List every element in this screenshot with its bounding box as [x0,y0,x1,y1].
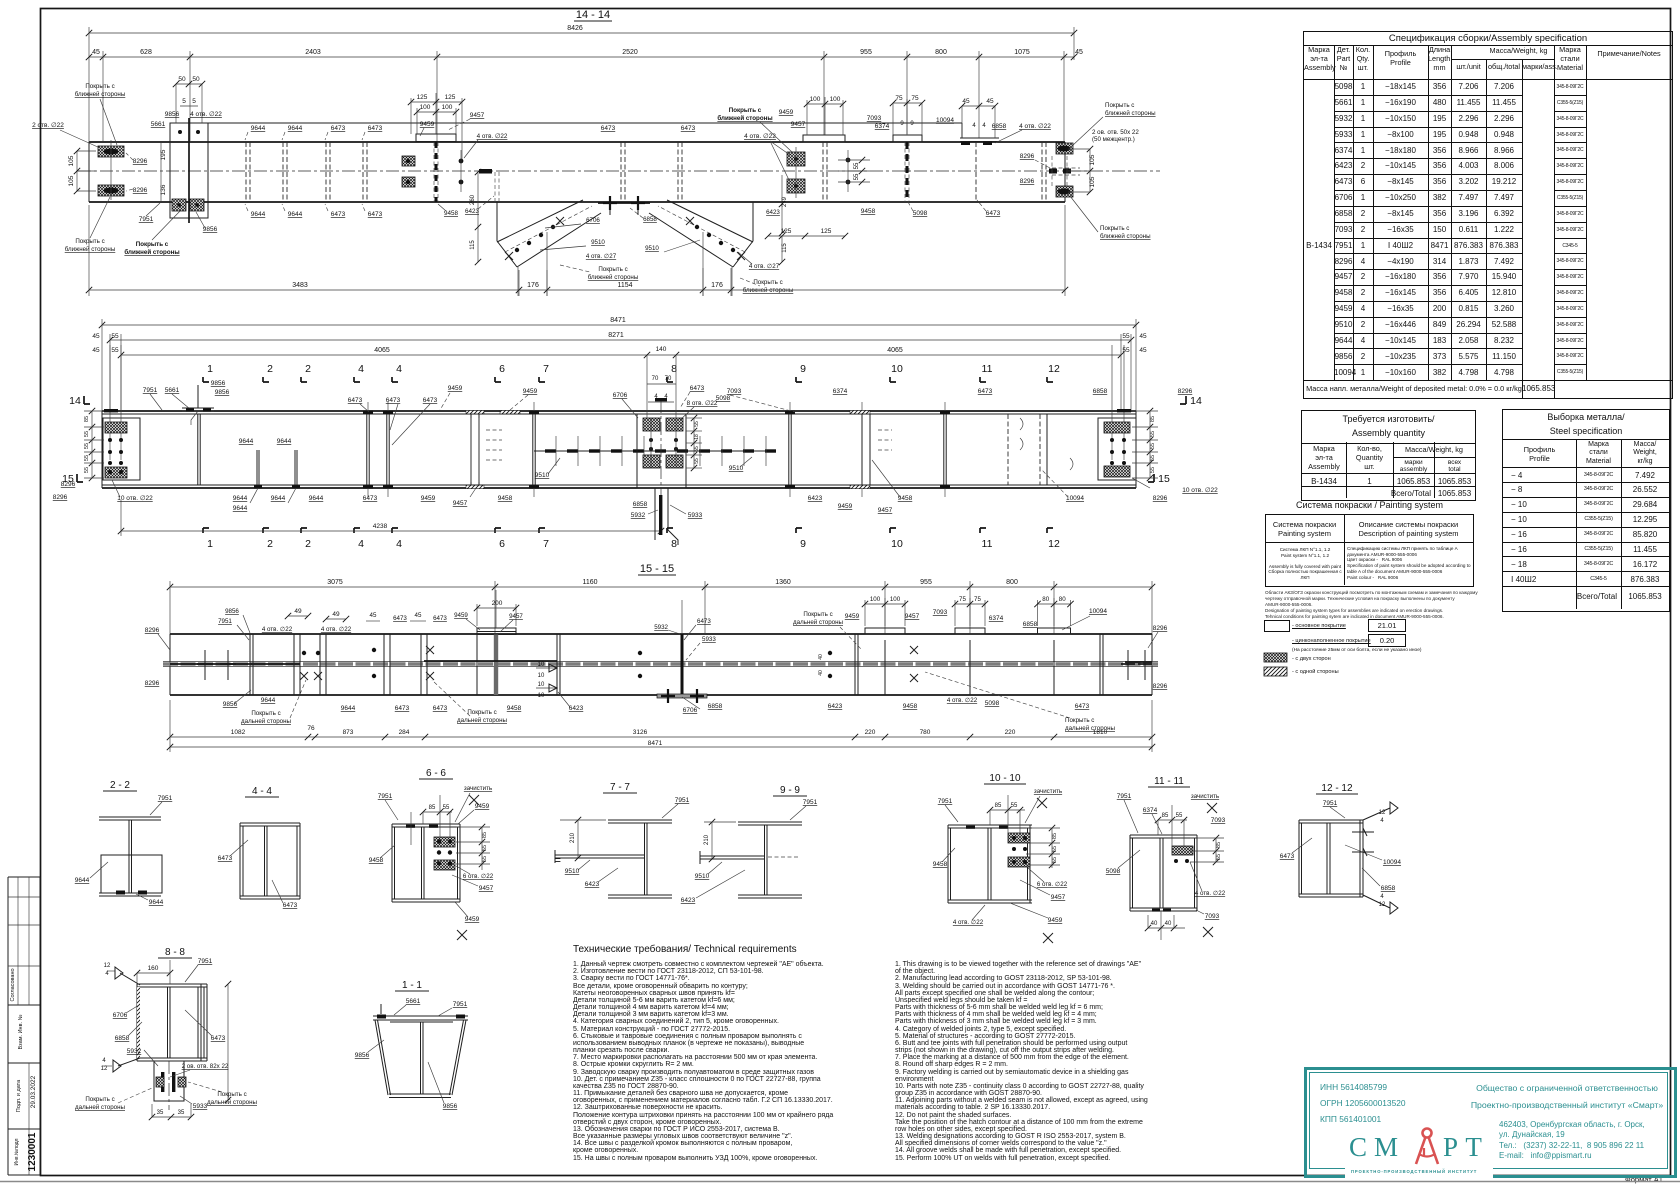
svg-text:9: 9 [900,121,904,127]
svg-text:9457: 9457 [509,613,523,620]
beam 15-15 outline [170,634,1152,695]
svg-text:6423: 6423 [681,897,696,904]
svg-text:9644: 9644 [288,211,303,218]
svg-text:140: 140 [656,346,667,353]
svg-text:6473: 6473 [331,211,346,218]
elevation stiffeners [198,402,950,497]
right end bolt group elevation [1098,345,1136,480]
svg-text:55: 55 [1150,467,1156,473]
left vertical dim chain 85/55x4 [84,408,104,481]
svg-text:4 отв. ∅22: 4 отв. ∅22 [321,626,352,633]
svg-text:6473: 6473 [331,125,346,132]
view marks 14/15 left [62,395,90,485]
section 2-2 [75,780,173,906]
svg-text:49: 49 [332,611,340,618]
svg-text:125: 125 [445,94,456,101]
svg-text:6858: 6858 [1093,388,1108,395]
svg-text:6858: 6858 [708,703,723,710]
svg-text:9459: 9459 [420,121,435,128]
svg-text:55: 55 [84,467,90,473]
svg-text:Покрыть с: Покрыть с [803,611,832,618]
svg-text:125: 125 [417,94,428,101]
label pokryt under plate [124,210,181,256]
svg-text:8471: 8471 [648,740,663,747]
company requisites [1320,1079,1406,1127]
svg-text:45: 45 [92,333,100,340]
svg-text:18: 18 [694,434,700,440]
svg-text:6: 6 [499,538,505,550]
svg-text:55: 55 [1011,803,1018,809]
svg-text:115: 115 [782,243,788,253]
svg-text:75: 75 [974,596,981,603]
mid splice bolt group [637,400,686,500]
svg-text:ближней стороны: ближней стороны [588,274,639,281]
svg-text:1154: 1154 [617,282,632,289]
svg-text:70: 70 [652,376,659,382]
dim row 4065 140 4065 [92,333,1147,411]
plate 200 on top [454,590,523,695]
svg-text:6473: 6473 [1075,703,1090,710]
beam 14-14 centerline [78,170,1160,172]
svg-text:5: 5 [182,98,186,105]
svg-text:6473: 6473 [681,125,696,132]
stiffener labels 6473 x3 [348,397,438,445]
svg-text:Покрыть с: Покрыть с [729,107,762,114]
svg-text:6858: 6858 [992,123,1007,130]
svg-text:8296: 8296 [61,481,76,488]
svg-text:100: 100 [830,96,841,103]
svg-text:зачистить: зачистить [464,785,492,792]
dims 49/49 with bolts [262,608,376,680]
svg-text:7093: 7093 [1205,913,1220,920]
svg-text:(50 межцентр.): (50 межцентр.) [1092,136,1135,143]
svg-text:дальней стороны: дальней стороны [1065,725,1116,732]
view title 14-14 [574,9,612,21]
svg-text:8296: 8296 [133,158,148,165]
dim 4238 bottom middle [118,500,664,536]
15-15 below labels left [223,680,584,725]
svg-text:9459: 9459 [838,503,853,510]
svg-text:6473: 6473 [211,1035,226,1042]
svg-text:7 - 7: 7 - 7 [610,782,630,793]
svg-text:55: 55 [854,162,860,169]
svg-text:9644: 9644 [239,438,254,445]
svg-text:10094: 10094 [1089,608,1107,615]
beam 14-14 flange edge line [208,123,962,138]
svg-text:5932: 5932 [654,624,668,631]
svg-text:55: 55 [1122,347,1130,354]
svg-text:Покрыть с: Покрыть с [598,266,627,273]
svg-text:85: 85 [1150,416,1156,422]
svg-text:45: 45 [1139,333,1147,340]
svg-text:4065: 4065 [374,347,390,354]
svg-text:9458: 9458 [861,208,876,215]
svg-text:9644: 9644 [288,125,303,132]
svg-text:10 - 10: 10 - 10 [989,773,1021,784]
svg-text:5098: 5098 [716,395,731,402]
svg-text:5: 5 [192,98,196,105]
svg-text:55: 55 [1052,846,1058,852]
right labels 8296 10otv [1132,478,1218,502]
svg-text:6374: 6374 [833,388,848,395]
svg-text:9458: 9458 [933,861,948,868]
svg-text:6423: 6423 [569,705,584,712]
plate assembly 5661/9856 at x190 [170,118,208,223]
svg-text:105: 105 [68,175,75,186]
view title 15-15 [638,563,676,575]
svg-text:100: 100 [870,596,881,603]
sheet bottom edge [0,1181,1680,1183]
svg-text:15 - 15: 15 - 15 [640,563,674,575]
technical requirements english column [895,961,1305,1162]
bracket B labels [645,240,794,294]
svg-text:5098: 5098 [913,210,928,217]
svg-text:9644: 9644 [277,438,292,445]
svg-text:ближней стороны: ближней стороны [75,91,126,98]
svg-text:35: 35 [157,1110,164,1116]
svg-text:40: 40 [818,654,824,660]
svg-text:4: 4 [105,971,109,977]
svg-text:9644: 9644 [251,211,266,218]
svg-text:55: 55 [84,455,90,461]
svg-text:5661: 5661 [165,387,180,394]
svg-text:9856: 9856 [203,226,218,233]
svg-text:6473: 6473 [393,615,407,622]
right end dims 105/105 [1068,146,1096,195]
svg-text:628: 628 [140,49,152,56]
svg-text:14: 14 [1190,395,1202,407]
top plate at x182-214 [182,385,214,425]
svg-text:8426: 8426 [567,25,583,32]
svg-text:9458: 9458 [444,210,459,217]
svg-text:7093: 7093 [867,115,882,122]
svg-text:10 отв. ∅22: 10 отв. ∅22 [117,495,153,502]
labels for top plates [845,608,1108,630]
svg-text:4: 4 [972,123,976,129]
svg-text:9644: 9644 [261,697,276,704]
address [1499,1120,1645,1161]
svg-text:55: 55 [84,443,90,449]
svg-text:55: 55 [111,333,119,340]
svg-text:зачистить: зачистить [1191,793,1219,800]
svg-text:8471: 8471 [610,317,626,324]
svg-text:1160: 1160 [582,579,597,586]
svg-text:2520: 2520 [622,49,638,56]
svg-text:1: 1 [207,363,213,375]
dashes near 9459 stiffener [421,418,513,507]
svg-text:5933: 5933 [193,1103,208,1110]
V bracket A diagonal plate with bolts [497,200,601,296]
left end bolt group elevation [103,345,140,480]
svg-text:8 отв. ∅22: 8 отв. ∅22 [687,400,718,407]
svg-text:55: 55 [443,805,450,811]
svg-text:7951: 7951 [378,793,393,800]
section 8-8 [75,947,258,1120]
svg-text:55: 55 [1150,443,1156,449]
svg-text:70: 70 [665,376,672,382]
dim row 45/628/2403/2520/955/800/1075/45 [86,49,1083,142]
svg-text:2403: 2403 [305,49,321,56]
svg-text:10: 10 [538,662,545,668]
svg-text:80: 80 [1059,596,1066,603]
svg-text:6473: 6473 [368,125,383,132]
svg-text:6423: 6423 [465,208,480,215]
svg-text:9: 9 [800,363,806,375]
svg-text:9459: 9459 [1048,917,1063,924]
svg-text:5661: 5661 [151,121,166,128]
svg-text:210: 210 [570,832,576,843]
svg-text:9856: 9856 [223,701,238,708]
svg-text:4 отв. ∅22: 4 отв. ∅22 [1195,890,1226,897]
mid bolts x848 + dims 55/55 [838,150,870,192]
svg-text:4 отв. ∅22: 4 отв. ∅22 [190,111,222,118]
svg-text:7951: 7951 [675,797,690,804]
svg-text:7: 7 [543,363,549,375]
15-15 left end crosses [145,627,300,687]
svg-text:85: 85 [1162,813,1169,819]
svg-text:6473: 6473 [601,125,616,132]
labels 9644 group below [233,438,378,512]
dim row 8426 [86,25,1077,142]
svg-text:10 отв. ∅22: 10 отв. ∅22 [1182,487,1218,494]
15-15 splice labels [654,618,716,660]
svg-text:4: 4 [358,363,364,375]
slogan band [1345,1165,1493,1178]
section 9-9 [681,785,818,904]
svg-text:7093: 7093 [727,388,742,395]
legend hatch swatches (svg) [1263,652,1493,682]
top plate2 9459/9457 with dims 100/100 [779,96,846,202]
svg-text:6374: 6374 [1143,807,1158,814]
svg-text:49: 49 [294,608,302,615]
svg-text:Покрыть с: Покрыть с [136,241,169,248]
svg-text:80: 80 [1042,596,1049,603]
bottom dim row 15-15 [167,700,1155,752]
svg-text:14 - 14: 14 - 14 [576,9,610,21]
svg-text:50: 50 [178,76,186,83]
section 12-12 [1280,783,1402,914]
top plate 7093/6374 with dims 75/75 [867,95,925,202]
svg-text:9457: 9457 [470,112,485,119]
svg-text:ближней стороны: ближней стороны [743,287,794,294]
svg-text:9459: 9459 [845,613,860,620]
svg-text:Покрыть с: Покрыть с [75,238,104,245]
svg-text:55: 55 [482,845,488,851]
svg-text:100: 100 [810,96,821,103]
svg-text:11: 11 [982,538,993,550]
svg-text:9459: 9459 [465,916,480,923]
dims 279 115 125/125 bracket B [765,228,848,265]
svg-text:8296: 8296 [145,627,160,634]
svg-text:85: 85 [84,416,90,422]
svg-text:4: 4 [1380,894,1384,900]
svg-text:ближней стороны: ближней стороны [65,246,116,253]
svg-text:45: 45 [986,98,994,105]
svg-text:1082: 1082 [231,729,246,736]
svg-text:6473: 6473 [363,495,378,502]
dashed plates 10094 right [1008,414,1084,502]
svg-text:7951: 7951 [139,216,154,223]
svg-text:6: 6 [499,363,505,375]
svg-text:12 - 12: 12 - 12 [1321,783,1353,794]
svg-text:105: 105 [68,155,75,166]
left end bolt plates 8296 [98,140,124,200]
svg-text:дальней стороны: дальней стороны [793,619,844,626]
dim row 8271 [107,332,1134,343]
mid splice right dim chain [686,415,702,471]
section 7-7 [555,782,690,898]
svg-text:12: 12 [104,963,111,969]
svg-text:6858: 6858 [1381,885,1396,892]
svg-text:4 отв. ∅27: 4 отв. ∅27 [586,253,617,260]
label pokryt bottom-left [65,197,116,253]
svg-text:9644: 9644 [233,505,248,512]
svg-text:дальней стороны: дальней стороны [457,717,508,724]
bottom plate 6706/6858 edge detail [598,196,657,223]
right pokryt labels [1070,102,1156,240]
svg-text:105: 105 [1089,154,1096,165]
bottom dim row 3483/176/1154/176 [86,205,1068,296]
svg-text:4: 4 [1380,818,1384,824]
svg-text:9457: 9457 [453,500,468,507]
svg-text:9856: 9856 [165,111,180,118]
company name [1462,1080,1672,1114]
svg-text:4: 4 [396,538,402,550]
svg-text:Покрыть с: Покрыть с [467,709,496,716]
svg-text:5661: 5661 [406,998,421,1005]
svg-text:7093: 7093 [933,609,948,616]
svg-text:45: 45 [415,612,422,619]
7093 hatch stiffeners right [808,411,913,515]
svg-text:176: 176 [711,282,723,289]
svg-text:5933: 5933 [702,636,716,643]
mid splice dims 140 70/70 4/4 [647,355,676,418]
section 10-10 [933,773,1068,943]
dim row 3075/1160/1360/955/800 [167,579,1155,634]
svg-text:9856: 9856 [443,1103,458,1110]
svg-text:7951: 7951 [218,618,232,625]
svg-text:дальней стороны: дальней стороны [241,718,292,725]
svg-text:85: 85 [995,803,1002,809]
svg-text:9458: 9458 [369,857,384,864]
15-15 stiffener verticals [250,634,560,695]
svg-text:8296: 8296 [1153,495,1168,502]
svg-text:85: 85 [1052,833,1058,839]
svg-text:6473: 6473 [1280,853,1295,860]
dashed stiffeners group 2 (6473) [601,125,1046,202]
svg-text:11 - 11: 11 - 11 [1154,776,1184,787]
svg-text:дальней стороны: дальней стороны [207,1099,258,1106]
label 2 otv d22 [32,122,100,148]
svg-text:8296: 8296 [1153,683,1168,690]
svg-text:220: 220 [1005,729,1016,736]
svg-text:8271: 8271 [608,332,624,339]
svg-text:8296: 8296 [145,680,160,687]
svg-text:9457: 9457 [905,613,920,620]
below splice details 5932/5933 [631,488,703,545]
svg-text:9459: 9459 [448,385,463,392]
svg-text:9: 9 [910,121,914,127]
section 6-6 [369,768,494,940]
svg-text:9459: 9459 [454,612,468,619]
svg-text:4 отв. ∅22: 4 отв. ∅22 [1019,123,1051,130]
svg-text:105: 105 [1089,176,1096,187]
svg-text:45: 45 [370,612,377,619]
svg-text:8296: 8296 [1153,625,1168,632]
svg-text:8296: 8296 [1020,178,1035,185]
svg-text:2: 2 [267,363,273,375]
svg-text:55: 55 [1150,455,1156,461]
svg-text:9510: 9510 [565,868,580,875]
right vertical dim chain [1132,408,1158,481]
svg-text:780: 780 [920,729,931,736]
svg-text:8296: 8296 [1020,153,1035,160]
steel specification table [1502,409,1670,612]
svg-text:6706: 6706 [613,392,628,399]
svg-text:9: 9 [800,538,806,550]
svg-text:100: 100 [420,104,431,111]
svg-text:Покрыть с: Покрыть с [1100,225,1129,232]
bracket A labels [540,217,639,281]
svg-text:55: 55 [482,856,488,862]
svg-text:9457: 9457 [791,121,806,128]
svg-text:4: 4 [396,363,402,375]
left margin title strip boxes [8,877,40,1175]
svg-text:9458: 9458 [507,705,522,712]
svg-text:9 - 9: 9 - 9 [780,785,800,796]
labels 8296 top/bottom [126,153,148,194]
svg-text:35: 35 [178,1110,185,1116]
svg-text:220: 220 [865,729,876,736]
svg-text:1: 1 [207,538,213,550]
svg-text:11: 11 [982,363,993,375]
beam 14-14 plan outline [89,142,1065,202]
svg-text:115: 115 [470,240,476,250]
svg-text:6706: 6706 [683,707,698,714]
svg-text:55: 55 [1150,431,1156,437]
svg-text:4 отв. ∅22: 4 отв. ∅22 [947,697,978,704]
svg-text:6 - 6: 6 - 6 [426,768,446,779]
svg-text:5932: 5932 [127,1048,142,1055]
svg-text:9644: 9644 [271,495,286,502]
svg-text:6 отв. ∅22: 6 отв. ∅22 [463,873,494,880]
svg-text:7951: 7951 [1117,793,1132,800]
svg-text:8 - 8: 8 - 8 [165,947,185,958]
svg-text:9510: 9510 [591,239,605,246]
svg-text:10: 10 [538,693,545,699]
svg-text:3126: 3126 [633,729,648,736]
svg-text:Инв.№подл: Инв.№подл [14,1138,20,1165]
svg-text:12: 12 [101,1066,108,1072]
labels 8296 + 10 otv [53,480,153,502]
svg-text:2 - 2: 2 - 2 [110,780,130,791]
svg-text:125: 125 [781,228,792,235]
15-15 plates on top right [862,596,1074,695]
svg-text:6473: 6473 [986,210,1001,217]
svg-text:6473: 6473 [395,705,410,712]
svg-text:9459: 9459 [421,495,436,502]
svg-text:Согласовано: Согласовано [10,968,16,1001]
V bracket B diagonal plate with bolts [649,200,753,296]
labels 7951 5661 9856 9856 [143,380,230,410]
svg-text:2: 2 [305,538,311,550]
section markers bottom row [203,528,1060,550]
svg-text:55: 55 [1122,333,1130,340]
svg-text:6858: 6858 [633,501,648,508]
15-15 mid rib and splice [424,600,918,703]
dim 105/105 left end [68,148,96,194]
compass icon [1410,1126,1444,1168]
